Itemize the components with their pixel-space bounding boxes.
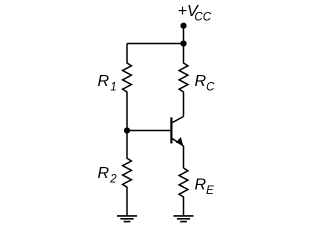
resistor RE (179, 168, 188, 216)
ground left (117, 216, 137, 222)
junction dot base node (124, 127, 130, 133)
svg-text:RC: RC (195, 73, 216, 94)
svg-text:RE: RE (195, 177, 215, 198)
svg-text:+VCC: +VCC (178, 3, 212, 24)
resistor R1 (123, 44, 132, 131)
terminal dot Vcc (180, 23, 186, 29)
transistor Q1 emitter arrow (176, 137, 183, 145)
wire top horizontal (127, 43, 184, 45)
junction dot top (180, 40, 186, 46)
wire base (127, 130, 171, 132)
svg-text:R2: R2 (98, 165, 118, 186)
resistor RC (179, 44, 188, 117)
resistor R2 (123, 131, 132, 216)
svg-text:R1: R1 (98, 73, 117, 94)
wire Vcc stub (183, 26, 185, 44)
transistor Q1 collector lead (172, 117, 184, 124)
ground right (174, 216, 194, 222)
transistor Q1 emitter lead (172, 138, 184, 168)
transistor Q1 base bar (170, 117, 172, 143)
